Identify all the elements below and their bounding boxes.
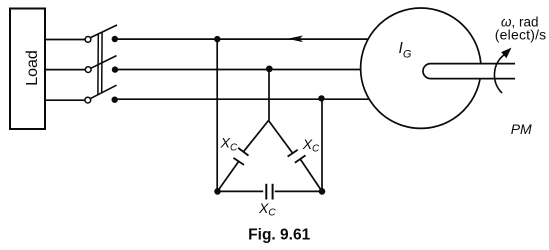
wire delta bottom left segment [217, 190, 263, 192]
switch hinge circle 3 [85, 97, 91, 103]
switch blade 1 [91, 25, 118, 38]
node delta bottom-right [319, 188, 326, 195]
svg-text:XC: XC [302, 136, 320, 155]
wire delta bottom right segment [275, 190, 322, 192]
wire line 3 (bottom phase) [115, 98, 370, 100]
wire load to switch pole 1 [45, 39, 85, 41]
wire load to switch pole 2 [45, 69, 86, 71]
current arrow on line 1 [287, 36, 303, 43]
wire delta right slant upper [269, 121, 293, 154]
svg-text:XC: XC [258, 200, 276, 219]
switch blade 3 [90, 85, 116, 98]
wire load to switch pole 3 [45, 99, 85, 101]
shaft [423, 64, 515, 79]
switch contact dot 1 [112, 36, 118, 42]
svg-text:Load: Load [24, 50, 41, 86]
wire line 1 (top phase) [115, 38, 368, 40]
capacitor XC left plates [233, 148, 248, 165]
node delta bottom-left [214, 188, 221, 195]
switch hinge circle 2 [85, 67, 91, 73]
capacitor XC bottom plates [266, 184, 272, 200]
wire delta left slant upper [243, 121, 268, 152]
rotation arrow arc [494, 55, 504, 94]
generator circle [361, 8, 481, 128]
wire middle vertical to delta top [268, 70, 270, 121]
switch blade 2 [91, 56, 117, 69]
capacitor XC right plates [288, 150, 306, 163]
switch contact dot 2 [112, 66, 118, 72]
wire delta left slant lower [217, 161, 238, 191]
svg-text:PM: PM [511, 121, 532, 137]
wire delta right slant lower [300, 159, 322, 191]
svg-text:Fig. 9.61: Fig. 9.61 [248, 227, 310, 244]
node line3/right vertical [318, 95, 324, 101]
wire left vertical to delta [216, 39, 218, 191]
node line2/middle vertical [266, 66, 273, 73]
svg-text:(elect)/s: (elect)/s [495, 27, 547, 43]
wire line 2 (middle phase) [115, 69, 361, 71]
load box [10, 9, 45, 130]
switch hinge circle 1 [85, 37, 91, 43]
wire right vertical to delta [321, 99, 323, 192]
switch gang bar [98, 32, 102, 94]
svg-text:XC: XC [220, 135, 238, 154]
node line1/left vertical [214, 36, 220, 42]
switch contact dot 3 [112, 97, 118, 103]
rotation arrowhead [501, 48, 511, 59]
